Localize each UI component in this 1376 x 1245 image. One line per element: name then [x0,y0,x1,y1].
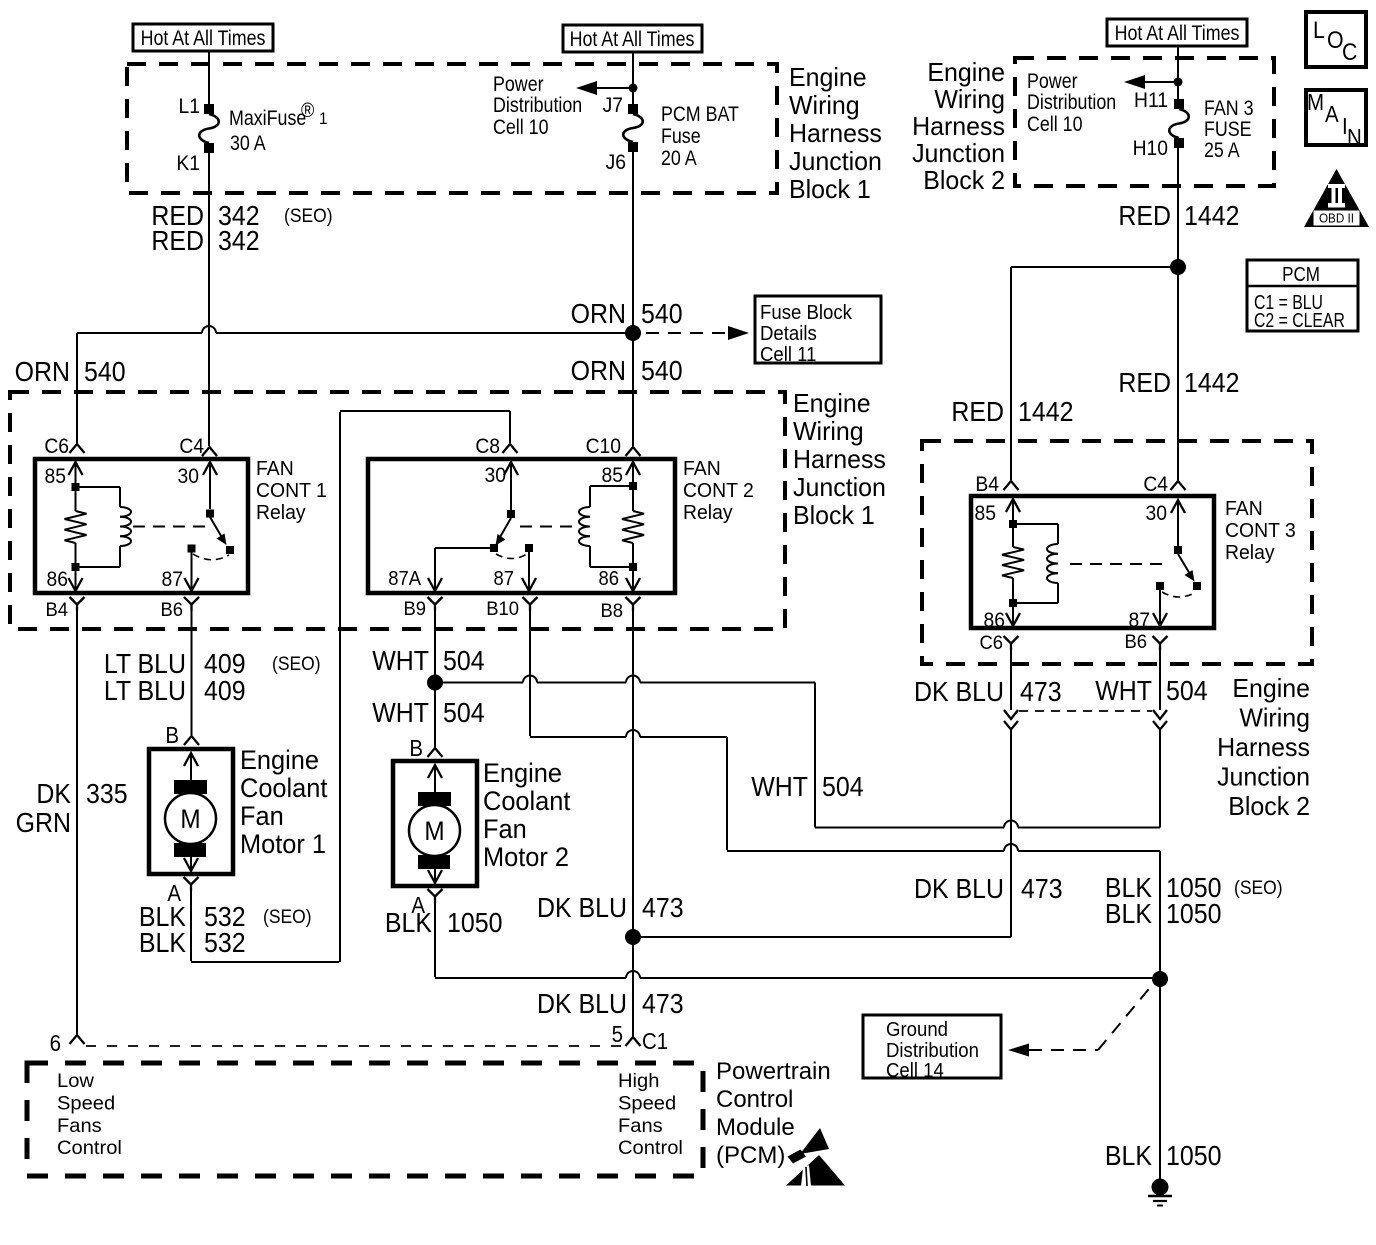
terminal J7 [628,104,638,114]
svg-text:86: 86 [984,609,1005,632]
relay2 terminal sq 85b [629,482,637,490]
svg-text:C10: C10 [586,435,621,458]
wire from Hot At All Times to MaxiFuse L1 [208,51,210,105]
motor1 brush top [174,780,207,794]
relay1 conn B6 [184,597,199,605]
svg-text:1442: 1442 [1184,367,1239,399]
relay1 pin 87 arrow [185,578,199,591]
svg-text:1050: 1050 [1166,1140,1221,1172]
svg-text:87: 87 [1129,609,1150,632]
svg-text:504: 504 [443,645,485,677]
svg-text:RED: RED [1118,200,1171,232]
svg-text:RED: RED [151,225,204,257]
svg-text:FAN: FAN [256,458,294,480]
svg-text:504: 504 [822,771,864,803]
svg-text:Harness: Harness [912,113,1005,142]
motor M1 Engine Coolant Fan Motor 1 outline [149,749,233,874]
svg-text:FAN: FAN [683,458,721,480]
svg-text:DK BLU: DK BLU [914,873,1004,905]
relay2 conn B8 [626,597,641,605]
relay2 switch common sq [507,510,515,518]
relay2 conn B9 [428,597,443,605]
power distribution branch arrow (left) [597,87,633,89]
junction block 2 (top) boundary [1015,58,1274,186]
terminal J6 [628,142,638,152]
relay2 pin 85 arrow [626,462,640,475]
svg-text:OBD II: OBD II [1319,211,1354,226]
motor1 armature circle [165,793,216,844]
svg-text:86: 86 [47,568,68,591]
relay3 pin 30 arrow [1171,500,1185,513]
svg-text:Motor 1: Motor 1 [240,828,326,859]
svg-text:N: N [1347,124,1362,150]
relay1 pin 30 arrow [203,462,217,475]
svg-text:C6: C6 [44,435,69,458]
svg-text:87: 87 [162,568,183,591]
relay2 armature pole sq [490,544,498,552]
relay2 throw dashed arc [496,554,527,559]
wire WHT 504 (B6 to bus) [1159,730,1161,828]
relay2 conn B10 [523,597,538,605]
svg-text:B10: B10 [486,598,519,619]
svg-text:Relay: Relay [683,502,733,524]
relay2 pin 86 arrow [626,578,640,591]
svg-text:Wiring: Wiring [934,86,1005,115]
relay1 armature pole sq [226,546,234,554]
ground G1 [1152,1179,1169,1196]
svg-text:B6: B6 [160,599,183,620]
svg-text:86: 86 [599,568,619,590]
node WHT 504 junction [427,675,443,691]
PCM dashed boundary box [27,1063,703,1176]
svg-text:C6: C6 [979,632,1003,653]
svg-text:FAN: FAN [1225,498,1263,520]
svg-text:C1: C1 [642,1028,668,1054]
svg-text:O: O [1327,26,1344,53]
relay3 armature pole sq [1193,582,1201,590]
svg-text:M: M [1307,89,1324,115]
svg-text:Wiring: Wiring [789,92,860,121]
relay2 armature [500,518,512,538]
motor2 bottom arrow [428,870,442,883]
node: Hot At All Times feed (center) [563,25,702,52]
svg-text:ORN: ORN [571,355,626,387]
svg-text:B6: B6 [1124,631,1147,652]
svg-text:H10: H10 [1133,137,1168,160]
svg-text:DK BLU: DK BLU [537,988,627,1020]
wire DK BLU 473 horizontal [633,936,1011,938]
terminal L1 [204,104,214,114]
svg-text:Harness: Harness [793,446,886,475]
svg-text:CONT 3: CONT 3 [1225,520,1296,542]
svg-text:RED: RED [951,396,1004,428]
svg-text:RED: RED [1118,367,1171,399]
svg-text:87: 87 [494,568,514,590]
motor1 conn A [184,877,199,885]
svg-text:473: 473 [1021,873,1063,905]
svg-text:85: 85 [975,502,996,525]
svg-text:30 A: 30 A [230,132,266,156]
relay1 armature [210,517,222,538]
node ORN 540 junction [625,325,641,341]
svg-text:Junction: Junction [793,474,886,503]
icon LOC box [1306,12,1366,67]
svg-text:504: 504 [1166,675,1208,707]
svg-text:CONT 2: CONT 2 [683,480,754,502]
svg-text:Junction: Junction [1217,763,1310,792]
svg-text:Coolant: Coolant [483,785,571,816]
svg-text:Cell 14: Cell 14 [886,1060,944,1082]
svg-text:Hot At All Times: Hot At All Times [141,27,266,51]
svg-text:Distribution: Distribution [886,1040,979,1062]
svg-text:C8: C8 [475,435,500,458]
relay2 resistor [632,490,634,511]
svg-text:Details: Details [760,323,817,345]
relay3 throw dashed arc [1162,592,1196,597]
fuse F1 MaxiFuse 30A [199,114,219,143]
conn pass-through DK BLU [1004,721,1018,730]
svg-text:Fans: Fans [57,1115,102,1136]
motor2 conn A [428,889,443,897]
motor2 brush bottom [418,855,450,869]
svg-text:A: A [1325,101,1339,127]
svg-text:5: 5 [612,1021,623,1047]
svg-text:DK: DK [36,778,71,810]
power distribution branch arrow (right) [1145,81,1178,83]
svg-text:Speed: Speed [618,1093,676,1114]
svg-text:ORN: ORN [15,356,70,388]
motor2 brush top [418,792,451,806]
svg-text:LT BLU: LT BLU [104,675,186,707]
svg-text:(SEO): (SEO) [272,652,321,674]
svg-text:1442: 1442 [1018,396,1073,428]
relay1 pin 86 arrow [69,578,83,591]
relay1 conn B4 [70,597,85,605]
svg-text:Distribution: Distribution [493,94,582,118]
svg-text:C2 = CLEAR: C2 = CLEAR [1254,309,1345,331]
wire from Hot At All Times center to J7 [632,52,634,105]
svg-text:Cell 10: Cell 10 [1027,113,1083,137]
relay1 terminal sq 86 [72,563,80,571]
relay3 terminal sq 85 [1009,520,1017,528]
svg-text:BLK: BLK [1105,898,1152,930]
relay2 pin 87 arrow [522,578,536,591]
svg-text:J7: J7 [603,94,623,117]
svg-text:Motor 2: Motor 2 [483,841,569,872]
svg-text:B8: B8 [600,600,623,621]
svg-text:GRN: GRN [16,807,71,839]
reference arrow to Fuse Block Details Cell 11 [646,332,727,334]
wire ORN 540 branch (junction to relay1 C6) [77,332,202,334]
svg-text:Relay: Relay [256,502,306,524]
svg-text:WHT: WHT [372,697,429,729]
svg-text:25 A: 25 A [1204,139,1240,163]
terminal H10 [1174,138,1184,148]
svg-text:Harness: Harness [1217,734,1310,763]
svg-text:540: 540 [84,356,126,388]
svg-text:(PCM): (PCM) [716,1142,785,1169]
terminal K1 [204,143,214,153]
terminal H11 [1174,99,1184,109]
svg-text:Hot At All Times: Hot At All Times [1115,22,1240,46]
svg-text:409: 409 [204,675,246,707]
svg-text:MaxiFuse: MaxiFuse [229,107,306,131]
svg-text:Block 1: Block 1 [789,176,871,205]
relay K3 FAN CONT 3 outline [971,496,1214,628]
svg-text:85: 85 [602,464,623,487]
wire BLK 532 loop (motor1 A to relay2 C8) [190,891,192,961]
relay3 pin 86 arrow [1006,613,1020,626]
wire BLK 1050 (motor2 A to ground bus) [434,903,436,977]
svg-text:20 A: 20 A [661,147,697,171]
svg-text:M: M [424,817,444,846]
svg-text:ORN: ORN [571,298,626,330]
svg-text:Wiring: Wiring [1239,704,1310,733]
relay1 throw dashed arc [193,554,229,560]
motor1 bottom arrow [184,858,198,871]
svg-text:Control: Control [57,1138,122,1159]
wire DK BLU 473 (to junction) [1010,730,1012,937]
svg-text:C4: C4 [179,435,204,458]
relay1 terminal sq 85 [72,483,80,491]
PCM connector dashed line [86,1045,624,1047]
relay1 switch common sq [206,510,214,518]
conn pass-through WHT [1153,721,1167,730]
svg-text:335: 335 [86,778,128,810]
relay K2 FAN CONT 2 outline [368,459,675,593]
callout box Fuse Block Details Cell 11 [755,296,881,363]
wire RED 342 (K1 to relay1 C4) [208,153,210,446]
svg-text:B9: B9 [403,598,426,619]
relay3 conn B6 [1153,636,1168,644]
svg-text:Control: Control [618,1138,683,1159]
svg-text:540: 540 [641,298,683,330]
relay3 coil [1013,523,1058,525]
wire RED 1442 (H10 down to relay3 C4) [1177,148,1179,480]
harness boundary dashed (relay3 bottom) [1019,710,1152,712]
svg-text:WHT: WHT [372,645,429,677]
relay2 actuation dashed line [520,526,577,528]
svg-text:L1: L1 [179,95,200,118]
svg-text:Junction: Junction [789,148,882,177]
svg-text:B: B [165,722,179,748]
svg-text:473: 473 [1020,676,1062,708]
wire B10 to ground bus [529,611,531,736]
node: Hot At All Times feed (left) [133,24,273,51]
svg-text:(SEO): (SEO) [284,204,333,226]
svg-text:High: High [618,1071,659,1092]
wire from Hot At All Times right to H11 [1177,46,1179,100]
relay1 actuation dashed line [133,526,206,528]
svg-text:®: ® [301,100,314,122]
svg-text:Low: Low [57,1071,95,1092]
svg-text:Fans: Fans [618,1115,663,1136]
svg-text:BLK: BLK [385,907,432,939]
svg-text:Fuse Block: Fuse Block [760,302,852,324]
svg-text:Engine: Engine [483,757,562,788]
fuse F3 FAN 3 FUSE 25A [1169,109,1189,138]
svg-text:DK BLU: DK BLU [537,892,627,924]
svg-text:B4: B4 [975,473,999,496]
svg-text:Engine: Engine [240,744,319,775]
svg-text:Engine: Engine [793,390,871,419]
svg-text:1050: 1050 [1166,898,1221,930]
svg-text:Harness: Harness [789,120,882,149]
wire DK GRN 335 (relay1 B4 to PCM pin6) [76,611,78,1034]
wire WHT 504 (relay3 B6 down) [1159,650,1161,710]
motor2 top arrow [428,765,442,778]
icon MAIN box [1306,90,1366,145]
svg-text:(SEO): (SEO) [263,905,312,927]
relay2 pin 30 arrow [504,462,518,475]
svg-text:Block 2: Block 2 [923,167,1005,196]
svg-text:WHT: WHT [1095,675,1152,707]
icon OBD II triangle [1304,169,1369,227]
svg-text:(SEO): (SEO) [1234,876,1283,898]
svg-text:Ground: Ground [886,1019,948,1041]
callout box Ground Distribution Cell 14 [863,1015,1001,1078]
legend PCM connector colors [1247,260,1358,331]
relay3 conn C6 [1004,636,1019,644]
relay2 wire 87A [435,547,494,549]
node: Hot At All Times feed (right) [1107,19,1247,46]
svg-text:30: 30 [485,464,506,487]
relay2 contact 87 sq [525,544,533,552]
relay3 resistor [1012,528,1014,547]
svg-text:1442: 1442 [1184,200,1239,232]
wire DK BLU 473 (relay3 C6 down) [1010,650,1012,710]
svg-text:PCM: PCM [1282,263,1320,286]
relay3 switch common sq [1174,546,1182,554]
svg-text:473: 473 [642,988,684,1020]
svg-text:Block 1: Block 1 [793,502,875,531]
svg-text:C: C [1342,38,1357,65]
svg-text:6: 6 [50,1030,61,1056]
wire ORN 540 (J6 down to relay2 C10) [632,152,634,446]
node RED 1442 junction [1170,259,1186,275]
relay1 contact 87 sq [188,545,196,553]
motor M2 Engine Coolant Fan Motor 2 outline [393,761,477,886]
relay3 actuation dashed line [1070,563,1170,565]
svg-text:WHT: WHT [751,771,808,803]
junction block 2 (right, relay3) boundary [922,441,1312,664]
svg-text:DK BLU: DK BLU [914,676,1004,708]
svg-text:Speed: Speed [57,1093,115,1114]
motor2 armature circle [409,805,460,856]
svg-text:1050: 1050 [447,907,502,939]
svg-text:BLK: BLK [1105,1140,1152,1172]
svg-text:Fan: Fan [483,813,527,844]
svg-text:M: M [180,805,200,834]
relay2 coil [590,485,633,487]
svg-text:Engine: Engine [1232,675,1310,704]
svg-text:30: 30 [178,465,199,488]
svg-text:473: 473 [642,892,684,924]
svg-text:85: 85 [45,465,66,488]
relay1 coil [76,486,121,488]
svg-text:30: 30 [1146,502,1167,525]
motor1 top arrow [184,753,198,766]
relay3 pin 85 arrow [1006,499,1020,512]
wire RED 1442 branch to relay3 B4 [1011,266,1178,268]
svg-text:K1: K1 [176,152,200,175]
svg-text:Fuse: Fuse [661,125,701,149]
relay3 contact 87 sq [1156,582,1164,590]
svg-text:342: 342 [218,225,260,257]
wire WHT 504 bus (junction to relay3 B6) [435,682,523,684]
svg-text:532: 532 [204,927,246,959]
motor1 brush bottom [174,843,206,857]
junction block 1 (middle, relays) boundary [10,392,785,629]
svg-text:Distribution: Distribution [1027,91,1116,115]
svg-text:Engine: Engine [927,59,1005,88]
svg-text:B4: B4 [45,599,68,620]
svg-text:Junction: Junction [912,140,1005,169]
svg-text:CONT 1: CONT 1 [256,480,327,502]
svg-text:Relay: Relay [1225,542,1275,564]
node DK BLU 473 junction [625,929,641,945]
svg-text:Fan: Fan [240,800,284,831]
svg-text:Module: Module [716,1114,795,1141]
fuse F2 PCM BAT 20A [623,114,643,142]
svg-text:87A: 87A [388,568,421,590]
ESD sensitivity symbol [800,1128,829,1154]
svg-text:Coolant: Coolant [240,772,328,803]
reference arrow to Ground Distribution [1008,1044,1029,1057]
relay2 terminal sq 86b [629,563,637,571]
svg-text:H11: H11 [1134,89,1168,112]
svg-text:B: B [409,735,423,761]
relay3 pin 87 arrow [1153,613,1167,626]
wire DK BLU 473 (relay2 B8 to PCM pin5) [632,611,634,1036]
relay K1 FAN CONT 1 outline [35,459,248,593]
svg-text:C4: C4 [1143,473,1168,496]
svg-text:BLK: BLK [139,927,186,959]
svg-text:Block 2: Block 2 [1228,793,1310,822]
svg-text:1: 1 [319,109,328,128]
svg-text:Control: Control [716,1086,793,1113]
relay3 terminal sq 86 [1009,599,1017,607]
svg-text:L: L [1313,16,1325,43]
svg-text:J6: J6 [606,151,626,174]
svg-text:PCM BAT: PCM BAT [661,103,739,127]
svg-text:Cell 10: Cell 10 [493,116,549,140]
svg-text:540: 540 [641,355,683,387]
node BLK 1050 junction [1152,971,1168,987]
wire WHT 504 (relay2 B9 to motor2 B) [434,611,436,747]
junction block 1 (top) boundary [127,64,777,193]
relay1 resistor [75,491,77,511]
svg-text:Engine: Engine [789,64,867,93]
svg-text:Cell 11: Cell 11 [760,344,816,366]
svg-text:504: 504 [443,697,485,729]
wire LT BLU 409 (relay1 B6 to motor1 B) [191,611,193,735]
svg-text:Powertrain: Powertrain [716,1058,831,1085]
relay3 armature [1178,554,1190,574]
relay1 pin 85 arrow [69,462,83,475]
svg-text:Hot At All Times: Hot At All Times [570,28,695,52]
svg-text:Wiring: Wiring [793,418,864,447]
